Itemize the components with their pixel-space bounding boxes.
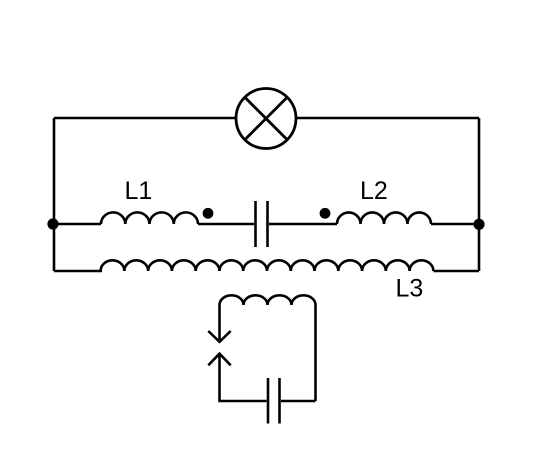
wire L3 to right vertical xyxy=(433,270,479,273)
wire L1 to capacitor xyxy=(198,223,254,226)
wire middle-left segment xyxy=(53,223,101,226)
wire C2 to right lead xyxy=(281,400,316,403)
wire L4 right lead xyxy=(314,305,317,401)
wire top-right horizontal xyxy=(296,117,479,120)
capacitor C1 right plate xyxy=(266,201,269,247)
wire top-left horizontal xyxy=(54,117,236,120)
wire left vertical xyxy=(53,118,56,271)
lamp DS1 cross line 2 xyxy=(245,97,287,139)
inductor L2 xyxy=(337,212,431,224)
svg-text:L2: L2 xyxy=(360,177,388,205)
wire L2 to right node xyxy=(431,223,479,226)
wire right vertical xyxy=(478,118,481,271)
inductor L1 xyxy=(101,212,198,224)
capacitor C1 left plate xyxy=(254,201,257,247)
wire capacitor to L2 xyxy=(269,223,337,226)
node junction dot left xyxy=(47,218,58,229)
node junction dot right xyxy=(473,219,484,230)
capacitor C2 left plate xyxy=(267,378,270,424)
capacitor C2 right plate xyxy=(278,378,281,424)
inductor L4 (pickup coil) xyxy=(220,295,316,305)
wire lower-left lead xyxy=(220,354,267,402)
arrow down head xyxy=(208,331,230,342)
phasing dot L1 xyxy=(203,208,214,219)
arrow up head xyxy=(208,354,230,366)
wire bottom-left segment xyxy=(54,270,102,273)
lamp DS1 circle xyxy=(236,89,296,149)
phasing dot L2 xyxy=(320,208,331,219)
svg-text:L1: L1 xyxy=(125,177,153,205)
lamp DS1 cross line 1 xyxy=(245,97,287,139)
svg-text:L3: L3 xyxy=(396,275,424,303)
wire L4 left lead xyxy=(218,305,221,342)
inductor L3 xyxy=(101,260,434,271)
